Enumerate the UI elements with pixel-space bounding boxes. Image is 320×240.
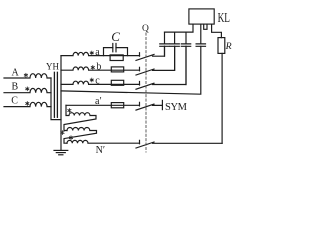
svg-text:a′: a′ <box>95 96 102 107</box>
svg-text:YH: YH <box>46 62 59 72</box>
svg-text:N′: N′ <box>96 145 105 156</box>
svg-text:C: C <box>111 29 120 44</box>
svg-text:a: a <box>95 47 100 58</box>
svg-text:C: C <box>11 96 18 107</box>
svg-text:b: b <box>96 61 101 72</box>
svg-text:Q: Q <box>142 24 149 34</box>
svg-text:R: R <box>225 41 232 52</box>
svg-text:c: c <box>95 76 100 87</box>
svg-text:A: A <box>12 68 20 79</box>
svg-text:KL: KL <box>218 11 230 26</box>
svg-text:SYM: SYM <box>165 102 188 113</box>
svg-text:B: B <box>12 81 19 92</box>
